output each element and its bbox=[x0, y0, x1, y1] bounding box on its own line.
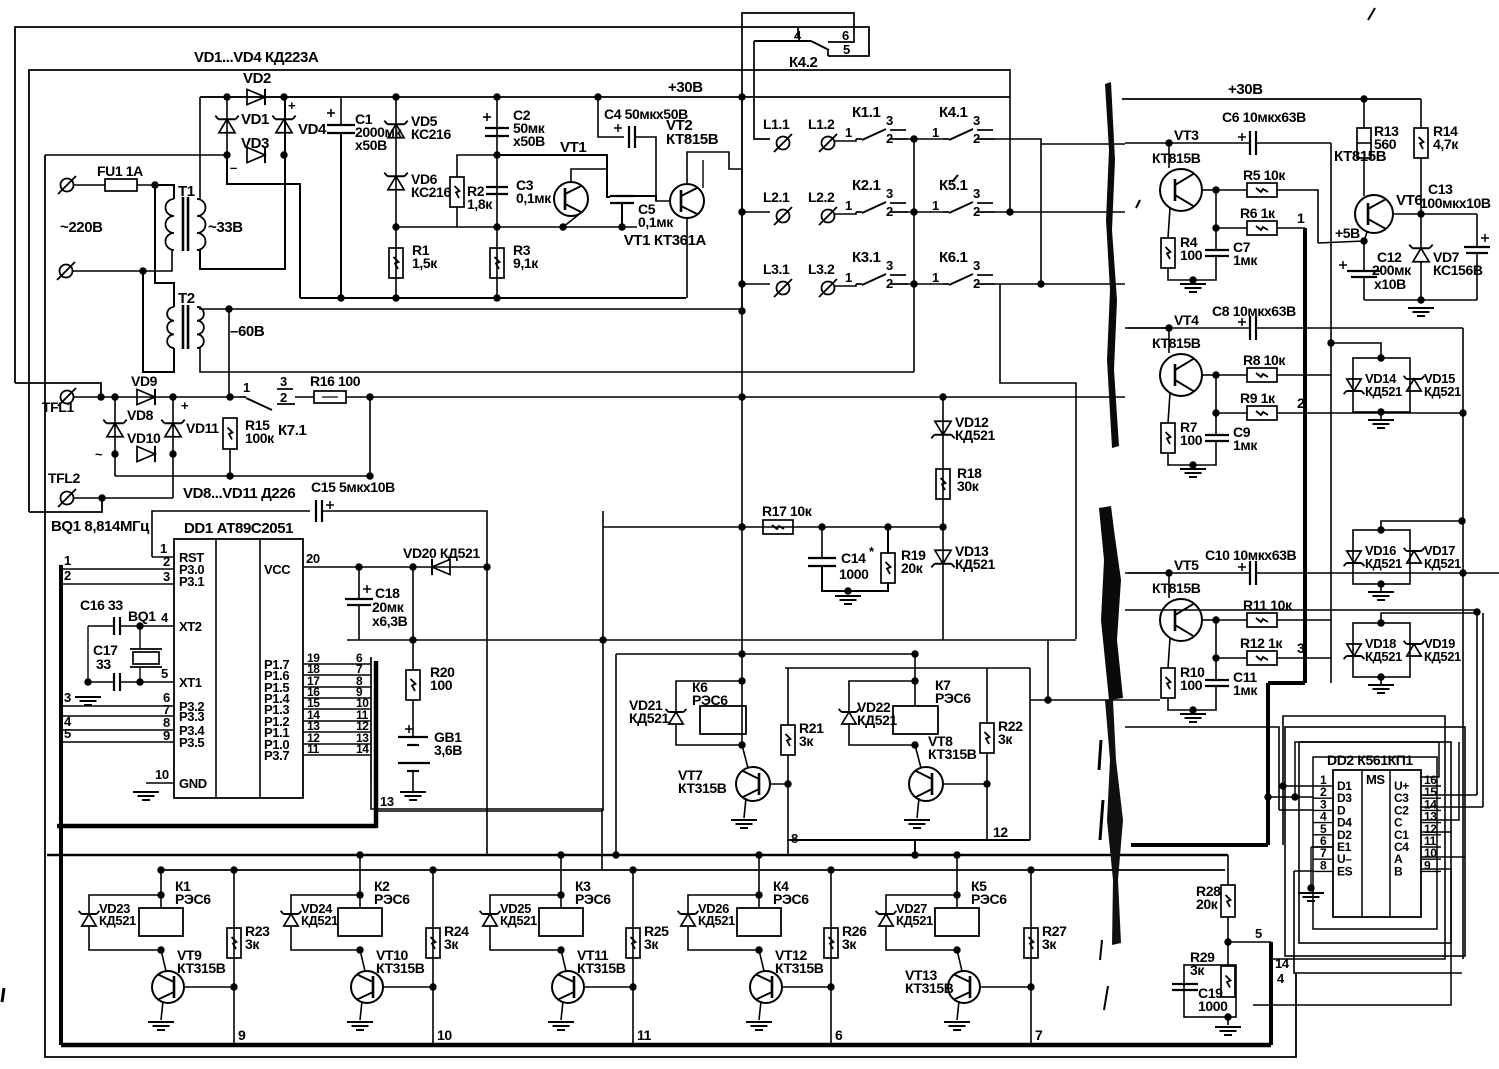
wire K7 coil feed bbox=[914, 654, 916, 706]
wire K6 rail left drop bbox=[615, 654, 617, 855]
wire VT11 collector bbox=[561, 950, 566, 971]
svg-text:3: 3 bbox=[886, 258, 893, 273]
wire R28 feed bbox=[1227, 855, 1229, 885]
node x742 y527 bbox=[738, 523, 745, 530]
diode VD14 bbox=[1347, 379, 1361, 391]
node fuse output bbox=[151, 181, 158, 188]
wire VT13 base bbox=[980, 986, 1031, 988]
wire outer border top-left bbox=[15, 27, 869, 383]
wire R8 in bbox=[1216, 374, 1247, 376]
wire VT13 emitter bbox=[957, 1001, 959, 1020]
wire matrix mid rail bbox=[913, 139, 915, 372]
svg-text:VT1 КТ361А: VT1 КТ361А bbox=[624, 232, 707, 249]
transistor VT4 KT815B bbox=[1160, 354, 1202, 396]
node K7 coil bottom bbox=[911, 741, 918, 748]
svg-text:РЭС6: РЭС6 bbox=[175, 891, 211, 907]
svg-text:R16 100: R16 100 bbox=[310, 373, 361, 389]
wire DD2 pin15 net bbox=[1421, 794, 1477, 796]
svg-text:С8 10мкх63В: С8 10мкх63В bbox=[1212, 303, 1296, 319]
crystal BQ1 bbox=[133, 652, 159, 664]
wire DD2 pin9 net bbox=[1253, 869, 1451, 1005]
node К5 coil tap bbox=[953, 851, 960, 858]
svg-text:КД521: КД521 bbox=[1365, 649, 1402, 664]
diode VD7 KC156B bbox=[1413, 248, 1429, 262]
node R27 top bbox=[1027, 866, 1034, 873]
wire VT8 emitter bbox=[917, 798, 919, 818]
svg-text:1: 1 bbox=[243, 380, 250, 395]
svg-text:L2.2: L2.2 bbox=[808, 189, 835, 205]
svg-text:5: 5 bbox=[64, 726, 71, 741]
svg-text:R17 10к: R17 10к bbox=[762, 503, 813, 519]
wire R9 out bbox=[1277, 412, 1463, 414]
pin DD2-7 bbox=[1313, 858, 1333, 860]
wire VD23 branch top bbox=[89, 895, 161, 913]
diode VD15 bbox=[1407, 379, 1421, 391]
wire VD24 branch bottom bbox=[291, 927, 360, 950]
svg-text:R9 1к: R9 1к bbox=[1240, 390, 1276, 406]
relay contact К3.1 bbox=[856, 283, 862, 285]
resistor R1 bbox=[389, 248, 403, 278]
svg-text:9: 9 bbox=[163, 728, 170, 743]
wire T2 primary top feed bbox=[155, 185, 174, 307]
svg-text:2: 2 bbox=[973, 204, 980, 219]
svg-text:3: 3 bbox=[1297, 640, 1305, 656]
terminal input lower bbox=[60, 265, 73, 278]
diode VD17 bbox=[1407, 551, 1421, 563]
wire to R16 bbox=[295, 396, 314, 398]
diode VD13 KD521 bbox=[935, 550, 951, 564]
wire VD7 bottom bbox=[1420, 262, 1422, 300]
diode VD1 bbox=[219, 119, 235, 133]
node x742 y654 bbox=[738, 650, 745, 657]
wire VD18 tap bbox=[1381, 613, 1477, 623]
wire R12 out bbox=[1277, 657, 1331, 659]
svg-text:4: 4 bbox=[1277, 971, 1285, 986]
svg-text:20: 20 bbox=[306, 551, 320, 566]
capacitor C18 bbox=[345, 598, 373, 600]
wire K6.1 out bbox=[995, 283, 1125, 285]
terminal L2.2 bbox=[822, 210, 835, 223]
pin DD2-6 bbox=[1313, 846, 1333, 848]
resistor R23 bbox=[227, 928, 241, 958]
svg-text:КД521: КД521 bbox=[1424, 556, 1461, 571]
transistor VT7 KT315B bbox=[736, 767, 770, 801]
wire R14 bottom bbox=[1420, 158, 1422, 214]
svg-text:КД521: КД521 bbox=[99, 913, 136, 928]
pin DD2-11 bbox=[1421, 846, 1441, 848]
wire fuse to T1 primary bbox=[155, 185, 174, 199]
diode VD11 bbox=[165, 423, 181, 437]
wire matrix left rail bbox=[741, 97, 743, 311]
node cap common bbox=[84, 678, 91, 685]
resistor R27 bbox=[1024, 928, 1038, 958]
svg-text:1мк: 1мк bbox=[1233, 252, 1258, 268]
wire VT10 emitter bbox=[360, 1001, 362, 1020]
wire VT9 emitter bbox=[161, 1001, 163, 1020]
svg-text:ВQ1 8,814МГц: ВQ1 8,814МГц bbox=[51, 518, 150, 535]
node K2.1 out bbox=[910, 208, 917, 215]
node K6 coil top bbox=[738, 677, 745, 684]
svg-text:ЕS: ЕS bbox=[1337, 864, 1353, 878]
svg-text:КД521: КД521 bbox=[896, 913, 933, 928]
wire net14 loop bbox=[1271, 716, 1445, 959]
svg-text:С14: С14 bbox=[841, 550, 866, 566]
wire R23 column bbox=[233, 870, 235, 1045]
diode VD23 KD521 bbox=[82, 914, 96, 926]
node C5 bottom bbox=[618, 223, 625, 230]
svg-text:КД521: КД521 bbox=[698, 913, 735, 928]
pin DD2-5 bbox=[1313, 834, 1333, 836]
svg-text:КД521: КД521 bbox=[955, 427, 995, 443]
svg-text:1: 1 bbox=[64, 553, 71, 568]
ground VT3 bbox=[1180, 283, 1206, 285]
relay contact K7.1 bbox=[240, 396, 246, 398]
wire x1477 drop bbox=[1476, 610, 1478, 795]
svg-text:3к: 3к bbox=[245, 936, 260, 952]
bus row D bbox=[160, 869, 1225, 871]
diode VD25 KD521 bbox=[483, 914, 497, 926]
wire T2 primary bottom feed bbox=[143, 271, 174, 372]
node VT5 fb low bbox=[1212, 654, 1219, 661]
svg-text:P3.1: P3.1 bbox=[179, 574, 204, 589]
node VT3 collector bbox=[1212, 186, 1219, 193]
pin DD1-3 bbox=[61, 583, 174, 585]
node R15 bottom bbox=[226, 472, 233, 479]
node K6 coil bottom bbox=[738, 741, 745, 748]
wire VD27 branch bottom bbox=[886, 927, 957, 950]
wire VD25 branch bottom bbox=[490, 927, 561, 950]
svg-text:5: 5 bbox=[161, 666, 168, 681]
wire K5.1 to border bbox=[1009, 69, 1011, 212]
capacitor C11 bbox=[1205, 679, 1229, 681]
resistor R14 bbox=[1414, 128, 1428, 158]
wire T1 secondary top to bridge bbox=[197, 97, 200, 199]
relay К5 coil bbox=[935, 908, 979, 936]
pin DD1-4 XT2 bbox=[140, 625, 174, 627]
wire C14 bottom bbox=[822, 566, 888, 591]
pin DD1 P1 row 12 bbox=[303, 743, 371, 745]
node K7.1 common bbox=[226, 393, 233, 400]
svg-text:К7.1: К7.1 bbox=[278, 422, 306, 439]
wire К1 coil feed bbox=[160, 870, 162, 908]
node R20 top bbox=[409, 636, 416, 643]
svg-text:КД521: КД521 bbox=[955, 556, 995, 572]
svg-text:+: + bbox=[288, 98, 296, 113]
wire T2 secondary top -60V rail bbox=[197, 307, 741, 309]
svg-text:0,1мк: 0,1мк bbox=[638, 214, 674, 230]
node right 0V bbox=[1417, 296, 1424, 303]
wire DD2 gnd pins b bbox=[1310, 847, 1312, 888]
svg-text:КТ815В: КТ815В bbox=[666, 131, 719, 148]
svg-text:VD1: VD1 bbox=[241, 111, 269, 128]
svg-text:2: 2 bbox=[886, 276, 893, 291]
bus thick top link bbox=[1268, 681, 1305, 685]
capacitor C9 bbox=[1205, 434, 1229, 436]
node VT4 base net bbox=[1165, 324, 1172, 331]
node bridge top left bbox=[223, 93, 230, 100]
node VD16 top bbox=[1377, 526, 1384, 533]
node K7 coil top bbox=[911, 677, 918, 684]
bus row C bbox=[47, 854, 1228, 857]
svg-text:КС156В: КС156В bbox=[1433, 262, 1483, 278]
wire center tall vertical bbox=[741, 97, 743, 745]
wire y811 link bbox=[377, 810, 603, 812]
capacitor C14 bbox=[808, 557, 836, 559]
resistor R12 bbox=[1247, 651, 1277, 665]
node VD23 top bbox=[157, 891, 164, 898]
node VT9 base bbox=[230, 983, 237, 990]
wire K7 box to row C bbox=[914, 840, 916, 855]
svg-text:1: 1 bbox=[1297, 210, 1305, 226]
wire bridge top rail bbox=[200, 96, 341, 98]
wire R21 bottom bbox=[787, 755, 789, 855]
ground VD18 pair bbox=[1368, 684, 1394, 686]
svg-text:3к: 3к bbox=[1190, 962, 1205, 978]
transistor VT1 KT361A bbox=[554, 182, 588, 216]
diode VD20 KD521 bbox=[432, 559, 450, 574]
node VD5 top bbox=[392, 93, 399, 100]
bus bottom thick right up bbox=[1269, 942, 1273, 1045]
wire R13 to VT6 base bbox=[1363, 158, 1365, 196]
wire R22 top bbox=[986, 668, 988, 723]
fuse FU1 bbox=[74, 184, 105, 186]
node DD2 gnd bbox=[1307, 884, 1314, 891]
svg-text:VD3: VD3 bbox=[241, 135, 269, 152]
transistor VT10 KT315B bbox=[351, 971, 383, 1003]
wire VT6 collector bbox=[1392, 213, 1421, 215]
ground VT10 bbox=[347, 1021, 373, 1023]
resistor R25 bbox=[626, 928, 640, 958]
svg-text:КТ315В: КТ315В bbox=[376, 960, 425, 976]
ground VT9 bbox=[148, 1021, 174, 1023]
svg-text:3: 3 bbox=[973, 113, 980, 128]
wire R13 column bbox=[1363, 99, 1365, 128]
wire VT1 collector loop bbox=[571, 169, 607, 182]
wire L3.2 to contact bbox=[835, 284, 856, 286]
bus thick P1 box right bbox=[374, 661, 379, 828]
svg-text:2: 2 bbox=[64, 568, 71, 583]
wire VD26 branch top bbox=[688, 895, 759, 913]
diode VD24 KD521 bbox=[284, 914, 298, 926]
capacitor C2 bbox=[485, 127, 509, 129]
svg-text:3: 3 bbox=[163, 569, 170, 584]
node net2 join bbox=[1459, 409, 1466, 416]
wire VD8 rail bbox=[114, 397, 116, 476]
wire VT11 emitter bbox=[561, 1001, 563, 1020]
wire bridge negative down bbox=[227, 155, 300, 298]
resistor R15 bbox=[223, 418, 237, 449]
wire C16 C17 common bbox=[87, 626, 89, 682]
pin DD2-15 bbox=[1421, 797, 1441, 799]
wire VT9 collector bbox=[161, 950, 166, 971]
transistor VT6 KT815B bbox=[1355, 195, 1393, 233]
transformer T2 primary coil bbox=[167, 307, 174, 348]
capacitor C4 bbox=[628, 126, 630, 148]
node bridge top right bbox=[280, 93, 287, 100]
node K5.1 out bbox=[1006, 208, 1013, 215]
wire L3.1 feed bbox=[742, 283, 770, 285]
capacitor C3 bbox=[486, 186, 508, 188]
IC DD2 wrapper outer bbox=[1285, 727, 1465, 956]
svg-text:1мк: 1мк bbox=[1233, 437, 1258, 453]
svg-text:КС216: КС216 bbox=[411, 126, 451, 142]
ground VT5 bbox=[1180, 713, 1206, 715]
svg-text:VD2: VD2 bbox=[243, 70, 271, 87]
artifact top right tick bbox=[1368, 8, 1375, 20]
wire R16 return drop bbox=[369, 397, 371, 476]
ground VT12 bbox=[746, 1021, 772, 1023]
svg-text:VCC: VCC bbox=[264, 562, 291, 577]
svg-text:R12 1к: R12 1к bbox=[1240, 635, 1283, 651]
wire net5 bbox=[1228, 941, 1271, 943]
wire VT5 base entry bbox=[1125, 572, 1169, 574]
node TFL1 b bbox=[111, 393, 118, 400]
wire К2.1 to К5.1 bbox=[908, 211, 943, 213]
pin DD2-13 bbox=[1421, 822, 1441, 824]
ground VT7 bbox=[731, 819, 757, 821]
diode VD12 KD521 bbox=[935, 421, 951, 435]
node C4 feed bbox=[594, 93, 601, 100]
ground VD14 pair bbox=[1368, 419, 1394, 421]
svg-text:3: 3 bbox=[886, 186, 893, 201]
pin DD1-1 RST bbox=[152, 556, 174, 558]
svg-text:100к: 100к bbox=[245, 430, 275, 446]
node К1 coil bottom bbox=[157, 946, 164, 953]
diode VD4 bbox=[276, 119, 292, 133]
svg-text:VD8...VD11 Д226: VD8...VD11 Д226 bbox=[183, 485, 295, 502]
ground DD2 bbox=[1298, 892, 1324, 894]
pin DD1-7 bbox=[61, 715, 174, 717]
ground R29 bbox=[1215, 1026, 1241, 1028]
svg-text:1: 1 bbox=[932, 125, 939, 140]
node XT2 bbox=[136, 622, 143, 629]
node К3 coil bottom bbox=[557, 946, 564, 953]
wire bridge negative to border bbox=[45, 154, 227, 156]
svg-text:~: ~ bbox=[95, 447, 103, 462]
svg-text:~220В: ~220В bbox=[60, 219, 103, 236]
svg-text:С10 10мкх63В: С10 10мкх63В bbox=[1205, 547, 1296, 563]
node K3.1 out bbox=[910, 280, 917, 287]
wire DD2 gnd pins bbox=[1311, 846, 1333, 848]
wire C5 top link bbox=[634, 196, 656, 201]
svg-text:1мк: 1мк bbox=[1233, 682, 1258, 698]
svg-text:30к: 30к bbox=[957, 478, 980, 494]
node VD16 bottom bbox=[1377, 580, 1384, 587]
wire negative row bbox=[115, 475, 370, 477]
node R7 gnd bbox=[1189, 461, 1196, 468]
svg-text:DD1 АТ89С2051: DD1 АТ89С2051 bbox=[184, 520, 293, 537]
node К2 coil tap bbox=[356, 851, 363, 858]
svg-text:3к: 3к bbox=[644, 936, 659, 952]
wire К1.1 to К4.1 bbox=[908, 138, 943, 140]
wire R12 in bbox=[1216, 657, 1247, 659]
node +30V K4.2 junction bbox=[738, 93, 745, 100]
svg-text:P3.5: P3.5 bbox=[179, 735, 204, 750]
node VD14 tap bbox=[1327, 339, 1334, 346]
wire VCC drop bus bbox=[486, 567, 488, 855]
wire VT11 base bbox=[584, 986, 633, 988]
svg-text:К6.1: К6.1 bbox=[939, 249, 967, 266]
resistor R3 bbox=[490, 248, 504, 278]
node R24 top bbox=[429, 866, 436, 873]
node К1 coil tap bbox=[157, 866, 164, 873]
pin DD1 P1 row 16 bbox=[303, 697, 371, 699]
svg-text:6: 6 bbox=[842, 28, 849, 43]
resistor R13 mid bbox=[1357, 142, 1371, 144]
wire T2 secondary bottom bbox=[197, 348, 914, 372]
svg-text:ВQ1: ВQ1 bbox=[128, 608, 156, 624]
svg-text:РЭС6: РЭС6 bbox=[935, 690, 971, 706]
wire VT1 base net bbox=[497, 155, 610, 197]
node K7 box row C bbox=[911, 851, 918, 858]
wire VD21 branch top bbox=[676, 681, 742, 712]
node R13 top bbox=[1360, 95, 1367, 102]
wire C11 top link bbox=[1215, 658, 1217, 680]
wire emitter row y227 bbox=[396, 226, 563, 228]
svg-text:1,5к: 1,5к bbox=[412, 255, 438, 271]
svg-text:1: 1 bbox=[932, 198, 939, 213]
capacitor C6 bbox=[1249, 131, 1251, 155]
svg-text:100: 100 bbox=[1180, 677, 1203, 693]
svg-text:11: 11 bbox=[637, 1027, 652, 1043]
svg-text:9: 9 bbox=[238, 1027, 246, 1043]
pin DD2-8 bbox=[1313, 870, 1333, 872]
wire XT2 net bbox=[88, 625, 114, 627]
wire VT2 top tick bbox=[702, 160, 704, 188]
svg-text:ХТ1: ХТ1 bbox=[179, 675, 202, 690]
node VD12 top bbox=[939, 393, 946, 400]
transformer T1 secondary coil bbox=[197, 199, 206, 250]
svg-text:13: 13 bbox=[380, 794, 394, 809]
wire R19 top bbox=[887, 527, 889, 553]
resistor R10 bbox=[1161, 668, 1175, 698]
terminal L3.2 bbox=[822, 282, 835, 295]
node VD12 bottom bbox=[939, 523, 946, 530]
wire R17 net bbox=[603, 526, 943, 528]
bus thick right vertical bbox=[1266, 683, 1270, 845]
svg-text:TFL1: TFL1 bbox=[42, 399, 74, 415]
svg-text:C15 5мкх10В: C15 5мкх10В bbox=[311, 479, 395, 495]
IC DD2 wrapper mid bbox=[1299, 742, 1451, 943]
svg-text:14: 14 bbox=[1275, 956, 1290, 971]
node VCC b bbox=[409, 563, 416, 570]
wire +30V right rail bbox=[1122, 98, 1421, 100]
wire second border bbox=[29, 70, 1010, 512]
capacitor C19 bbox=[1172, 983, 1198, 985]
diode VD22 KD521 bbox=[842, 712, 856, 724]
node VT7 base R21 bbox=[784, 780, 791, 787]
svg-text:33: 33 bbox=[96, 656, 111, 672]
pin DD2-2 bbox=[1313, 797, 1333, 799]
resistor R13 bbox=[1357, 128, 1371, 158]
svg-text:3: 3 bbox=[280, 374, 287, 389]
wire L2.1 feed bbox=[742, 211, 770, 213]
svg-text:P3.7: P3.7 bbox=[264, 748, 289, 763]
svg-text:1: 1 bbox=[845, 198, 852, 213]
svg-text:20к: 20к bbox=[1196, 896, 1219, 912]
wire DD2 pin1 net bbox=[1283, 785, 1313, 787]
svg-text:КТ315В: КТ315В bbox=[177, 960, 226, 976]
diode VD9 bbox=[137, 389, 155, 404]
svg-text:DD2 К561КП1: DD2 К561КП1 bbox=[1327, 752, 1413, 768]
svg-text:КД521: КД521 bbox=[1365, 384, 1402, 399]
wire VT1 emitter bbox=[563, 212, 582, 227]
svg-text:–: – bbox=[230, 160, 237, 175]
resistor R20 bbox=[406, 670, 420, 700]
svg-text:КТ815В: КТ815В bbox=[1152, 580, 1201, 596]
wire x1048 drop bbox=[1047, 640, 1049, 700]
svg-text:100: 100 bbox=[430, 677, 453, 693]
